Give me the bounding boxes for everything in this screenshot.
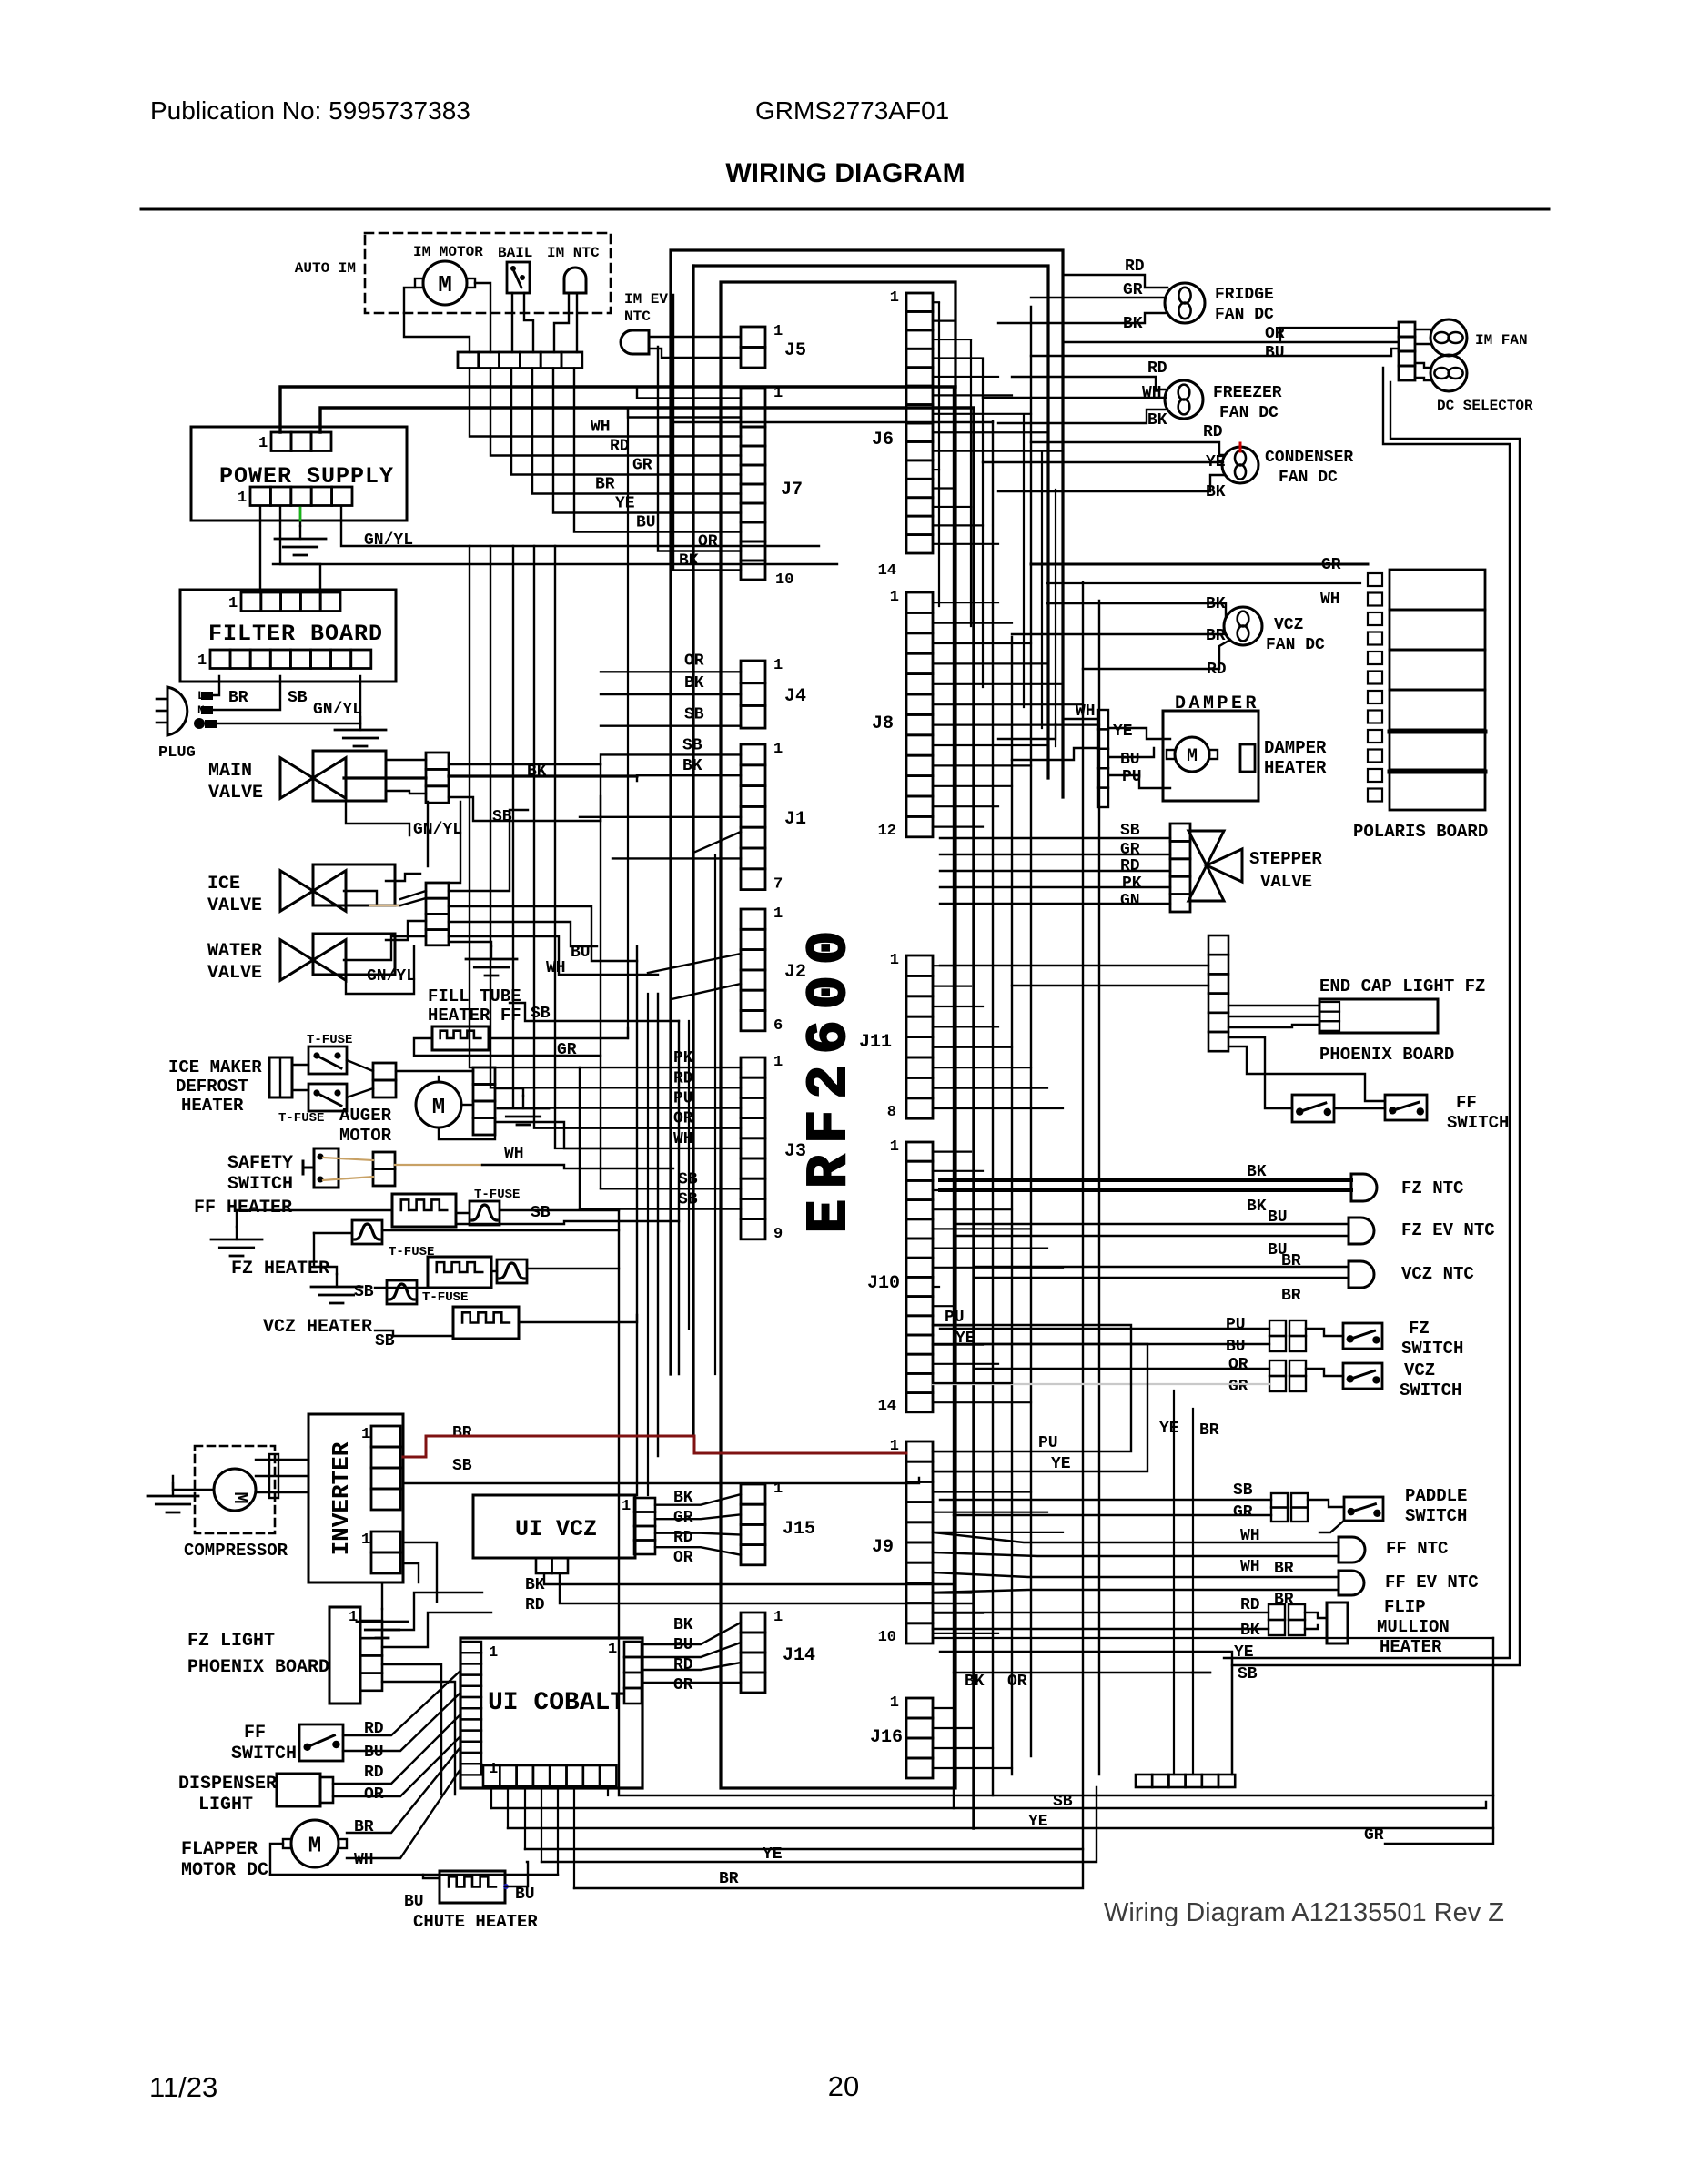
svg-text:BU: BU: [404, 1893, 424, 1911]
svg-text:BK: BK: [684, 674, 704, 693]
svg-text:BR: BR: [595, 476, 615, 494]
svg-text:GR: GR: [632, 457, 652, 475]
svg-text:J4: J4: [784, 686, 806, 707]
svg-text:SB: SB: [1233, 1481, 1253, 1500]
svg-text:VALVE: VALVE: [207, 895, 262, 916]
svg-text:RD: RD: [1120, 857, 1140, 875]
svg-text:14: 14: [878, 1398, 896, 1415]
svg-text:1: 1: [489, 1644, 498, 1662]
svg-text:STEPPER: STEPPER: [1249, 849, 1322, 869]
svg-text:BK: BK: [525, 1576, 545, 1594]
svg-text:J16: J16: [870, 1727, 903, 1748]
svg-text:IM MOTOR: IM MOTOR: [413, 244, 483, 260]
svg-text:J5: J5: [784, 340, 806, 361]
svg-text:BU: BU: [1120, 751, 1140, 769]
svg-text:INVERTER: INVERTER: [328, 1441, 355, 1555]
svg-text:FRIDGE: FRIDGE: [1215, 286, 1274, 304]
svg-text:J7: J7: [781, 480, 803, 500]
svg-text:BAIL: BAIL: [498, 245, 532, 261]
svg-text:DISPENSER: DISPENSER: [178, 1774, 277, 1795]
svg-text:SWITCH: SWITCH: [1405, 1506, 1467, 1526]
svg-text:J3: J3: [784, 1141, 806, 1162]
svg-text:6: 6: [773, 1017, 783, 1035]
svg-text:RD: RD: [1147, 359, 1167, 378]
svg-text:DC SELECTOR: DC SELECTOR: [1437, 398, 1533, 414]
svg-text:RD: RD: [610, 438, 630, 456]
svg-text:IM FAN: IM FAN: [1475, 332, 1528, 349]
svg-text:MAIN: MAIN: [208, 761, 252, 782]
svg-text:RD: RD: [364, 1764, 384, 1782]
svg-text:SWITCH: SWITCH: [1401, 1339, 1463, 1359]
svg-text:J2: J2: [784, 962, 806, 983]
svg-text:WH: WH: [673, 1130, 693, 1148]
svg-text:NTC: NTC: [624, 308, 651, 325]
svg-text:M: M: [438, 271, 452, 298]
svg-text:FF EV NTC: FF EV NTC: [1385, 1572, 1479, 1592]
svg-text:T-FUSE: T-FUSE: [474, 1188, 520, 1202]
svg-text:HEATER FF: HEATER FF: [428, 1006, 521, 1026]
svg-text:1: 1: [890, 1138, 899, 1156]
svg-text:SB: SB: [288, 689, 308, 707]
svg-text:GR: GR: [673, 1509, 693, 1527]
svg-text:BK: BK: [673, 1616, 693, 1634]
svg-text:1: 1: [773, 1054, 783, 1071]
svg-text:GR: GR: [1233, 1503, 1253, 1522]
svg-text:BR: BR: [1281, 1287, 1301, 1305]
svg-text:UI VCZ: UI VCZ: [515, 1516, 597, 1542]
svg-text:HEATER: HEATER: [1380, 1637, 1442, 1657]
svg-text:VCZ: VCZ: [1404, 1360, 1435, 1380]
svg-text:BK: BK: [673, 1489, 693, 1507]
svg-text:J1: J1: [784, 809, 806, 830]
svg-text:MOTOR DC: MOTOR DC: [181, 1860, 268, 1881]
svg-text:UI COBALT: UI COBALT: [488, 1689, 625, 1717]
svg-text:FAN DC: FAN DC: [1279, 469, 1338, 487]
svg-text:M: M: [1187, 746, 1198, 767]
svg-text:9: 9: [773, 1226, 783, 1243]
svg-text:J10: J10: [867, 1273, 900, 1294]
svg-text:J8: J8: [872, 713, 894, 734]
svg-text:1: 1: [773, 741, 783, 758]
svg-text:VALVE: VALVE: [1260, 872, 1312, 892]
svg-text:DEFROST: DEFROST: [176, 1077, 248, 1097]
svg-text:1: 1: [228, 595, 238, 612]
svg-text:M: M: [228, 1491, 251, 1503]
svg-text:7: 7: [773, 876, 783, 894]
svg-text:GN/YL: GN/YL: [413, 821, 462, 839]
svg-text:AUGER: AUGER: [339, 1106, 392, 1126]
svg-text:FZ EV NTC: FZ EV NTC: [1401, 1220, 1495, 1240]
svg-text:OR: OR: [673, 1549, 693, 1567]
svg-text:RD: RD: [673, 1656, 693, 1674]
svg-text:BK: BK: [1147, 411, 1167, 430]
svg-text:1: 1: [361, 1532, 370, 1549]
svg-text:10: 10: [878, 1629, 896, 1646]
svg-text:VCZ: VCZ: [1274, 616, 1303, 634]
svg-text:SWITCH: SWITCH: [231, 1744, 297, 1764]
svg-text:FZ NTC: FZ NTC: [1401, 1178, 1463, 1198]
svg-text:1: 1: [773, 1609, 783, 1626]
svg-text:20: 20: [828, 2070, 859, 2102]
svg-text:SB: SB: [375, 1332, 395, 1350]
svg-text:OR: OR: [673, 1676, 693, 1694]
svg-text:WH: WH: [1320, 591, 1340, 609]
svg-text:BK: BK: [965, 1673, 985, 1691]
svg-text:10: 10: [775, 571, 793, 589]
svg-text:FAN DC: FAN DC: [1215, 306, 1274, 324]
svg-text:VCZ HEATER: VCZ HEATER: [263, 1317, 372, 1338]
svg-text:ICE MAKER: ICE MAKER: [168, 1057, 262, 1077]
svg-text:1: 1: [773, 323, 783, 340]
svg-text:GR: GR: [1120, 841, 1140, 859]
svg-text:SB: SB: [682, 736, 702, 754]
svg-text:HEATER: HEATER: [1264, 758, 1327, 778]
svg-text:SWITCH: SWITCH: [227, 1174, 293, 1195]
svg-text:PHOENIX BOARD: PHOENIX BOARD: [1319, 1045, 1454, 1065]
svg-text:BU: BU: [515, 1886, 535, 1904]
svg-text:BR: BR: [1274, 1560, 1294, 1578]
svg-text:OR: OR: [364, 1785, 384, 1804]
svg-text:WH: WH: [354, 1851, 374, 1869]
svg-text:FAN DC: FAN DC: [1219, 404, 1279, 422]
svg-text:ICE: ICE: [207, 874, 240, 895]
svg-text:MOTOR: MOTOR: [339, 1126, 392, 1146]
svg-text:BU: BU: [673, 1636, 693, 1654]
svg-text:1: 1: [258, 435, 268, 452]
svg-text:YE: YE: [1113, 723, 1133, 741]
svg-text:VALVE: VALVE: [208, 783, 263, 804]
svg-text:1: 1: [773, 905, 783, 923]
svg-text:FF: FF: [244, 1723, 266, 1744]
svg-text:FREEZER: FREEZER: [1213, 384, 1282, 402]
svg-text:VCZ NTC: VCZ NTC: [1401, 1264, 1474, 1284]
svg-text:GRMS2773AF01: GRMS2773AF01: [755, 96, 949, 125]
svg-text:DAMPER: DAMPER: [1264, 738, 1327, 758]
svg-text:1: 1: [238, 490, 247, 507]
svg-text:GN/YL: GN/YL: [313, 701, 362, 719]
svg-text:OR: OR: [698, 533, 718, 551]
svg-text:GR: GR: [1228, 1378, 1248, 1396]
svg-text:BU: BU: [636, 514, 656, 532]
svg-text:1: 1: [197, 652, 207, 670]
svg-text:WH: WH: [504, 1145, 524, 1163]
svg-text:CHUTE HEATER: CHUTE HEATER: [413, 1912, 538, 1932]
svg-text:1: 1: [890, 589, 899, 606]
svg-text:WIRING DIAGRAM: WIRING DIAGRAM: [725, 158, 965, 188]
svg-text:SWITCH: SWITCH: [1400, 1380, 1461, 1400]
svg-text:FZ: FZ: [1409, 1319, 1430, 1339]
svg-text:RD: RD: [1203, 423, 1223, 441]
svg-text:FF NTC: FF NTC: [1386, 1539, 1448, 1559]
svg-text:YE: YE: [1159, 1420, 1179, 1438]
svg-text:COMPRESSOR: COMPRESSOR: [184, 1541, 288, 1561]
svg-text:14: 14: [878, 562, 896, 580]
svg-text:BU: BU: [1265, 344, 1285, 362]
svg-text:1: 1: [773, 657, 783, 674]
svg-text:1: 1: [489, 1761, 498, 1778]
svg-text:1: 1: [773, 385, 783, 402]
svg-text:SB: SB: [452, 1457, 472, 1475]
svg-text:BU: BU: [1226, 1338, 1246, 1356]
svg-text:FZ LIGHT: FZ LIGHT: [187, 1631, 275, 1652]
svg-text:PHOENIX BOARD: PHOENIX BOARD: [187, 1657, 329, 1678]
svg-text:YE: YE: [1234, 1643, 1254, 1662]
svg-text:BR: BR: [719, 1870, 739, 1888]
svg-text:Publication No: 5995737383: Publication No: 5995737383: [150, 96, 470, 125]
svg-text:1: 1: [361, 1426, 370, 1443]
svg-text:END CAP LIGHT FZ: END CAP LIGHT FZ: [1319, 976, 1485, 996]
svg-text:PLUG: PLUG: [158, 744, 196, 762]
svg-text:PU: PU: [1038, 1434, 1058, 1452]
svg-text:FF: FF: [1456, 1093, 1477, 1113]
svg-text:BK: BK: [682, 757, 702, 775]
svg-text:PK: PK: [1122, 875, 1142, 893]
svg-text:8: 8: [887, 1104, 896, 1121]
svg-text:MULLION: MULLION: [1377, 1617, 1450, 1637]
svg-text:OR: OR: [673, 1110, 693, 1128]
svg-text:1: 1: [349, 1609, 358, 1626]
svg-text:SWITCH: SWITCH: [1447, 1113, 1509, 1133]
svg-text:BR: BR: [228, 689, 248, 707]
svg-text:FLAPPER: FLAPPER: [181, 1839, 258, 1860]
svg-text:RD: RD: [673, 1069, 693, 1087]
svg-text:BR: BR: [452, 1424, 472, 1442]
svg-text:PU: PU: [673, 1090, 693, 1108]
svg-text:HEATER: HEATER: [181, 1096, 244, 1116]
svg-text:RD: RD: [1125, 258, 1145, 276]
svg-text:1: 1: [890, 952, 899, 969]
svg-text:PADDLE: PADDLE: [1405, 1486, 1467, 1506]
svg-text:SB: SB: [684, 706, 704, 724]
svg-text:AUTO IM: AUTO IM: [295, 260, 356, 277]
svg-text:POLARIS BOARD: POLARIS BOARD: [1353, 822, 1488, 842]
svg-text:Wiring Diagram A12135501 Rev Z: Wiring Diagram A12135501 Rev Z: [1104, 1898, 1504, 1927]
svg-text:WH: WH: [1142, 384, 1162, 402]
svg-text:T-FUSE: T-FUSE: [278, 1111, 324, 1126]
svg-text:WH: WH: [1240, 1558, 1260, 1576]
svg-text:ERF2600: ERF2600: [797, 920, 862, 1233]
svg-text:IM EV: IM EV: [624, 291, 668, 308]
svg-text:PU: PU: [1226, 1316, 1246, 1334]
svg-text:OR: OR: [1228, 1356, 1248, 1374]
svg-text:BK: BK: [1247, 1198, 1267, 1216]
svg-text:SB: SB: [354, 1283, 374, 1301]
svg-text:WH: WH: [591, 419, 611, 437]
svg-text:1: 1: [890, 1694, 899, 1712]
svg-text:J15: J15: [783, 1519, 815, 1540]
svg-text:RD: RD: [525, 1596, 545, 1614]
svg-text:11/23: 11/23: [149, 2071, 217, 2103]
svg-text:LIGHT: LIGHT: [198, 1795, 253, 1815]
svg-text:J9: J9: [872, 1537, 894, 1558]
svg-text:BK: BK: [679, 552, 699, 571]
svg-text:SAFETY: SAFETY: [227, 1153, 293, 1174]
svg-text:M: M: [432, 1096, 445, 1120]
svg-text:GN: GN: [1120, 892, 1140, 910]
svg-text:VALVE: VALVE: [207, 963, 262, 984]
svg-text:T-FUSE: T-FUSE: [307, 1033, 352, 1047]
svg-text:SB: SB: [1238, 1665, 1258, 1683]
svg-text:PK: PK: [673, 1049, 693, 1067]
svg-text:J6: J6: [872, 430, 894, 450]
svg-text:FILL TUBE: FILL TUBE: [428, 986, 521, 1006]
svg-text:1: 1: [622, 1498, 631, 1515]
svg-text:12: 12: [878, 823, 896, 840]
svg-text:CONDENSER: CONDENSER: [1265, 449, 1353, 467]
svg-text:M: M: [308, 1834, 321, 1858]
svg-text:GN/YL: GN/YL: [367, 967, 416, 986]
svg-text:FILTER BOARD: FILTER BOARD: [208, 621, 383, 647]
svg-text:BR: BR: [1199, 1421, 1219, 1440]
svg-text:WATER: WATER: [207, 941, 262, 962]
svg-text:RD: RD: [673, 1529, 693, 1547]
svg-text:FLIP: FLIP: [1384, 1597, 1426, 1617]
svg-text:T-FUSE: T-FUSE: [422, 1290, 468, 1305]
svg-text:IM NTC: IM NTC: [547, 245, 600, 261]
svg-text:J11: J11: [859, 1032, 892, 1053]
svg-text:1: 1: [890, 289, 899, 307]
svg-text:YE: YE: [615, 495, 635, 513]
svg-text:BU: BU: [364, 1744, 384, 1762]
svg-text:BR: BR: [1206, 627, 1226, 645]
svg-text:FF HEATER: FF HEATER: [194, 1198, 292, 1218]
svg-text:J14: J14: [783, 1645, 815, 1666]
svg-text:OR: OR: [1007, 1673, 1027, 1691]
svg-text:SB: SB: [531, 1204, 551, 1222]
svg-text:FAN DC: FAN DC: [1266, 636, 1325, 654]
svg-text:1: 1: [608, 1641, 617, 1658]
svg-text:OR: OR: [684, 652, 704, 670]
